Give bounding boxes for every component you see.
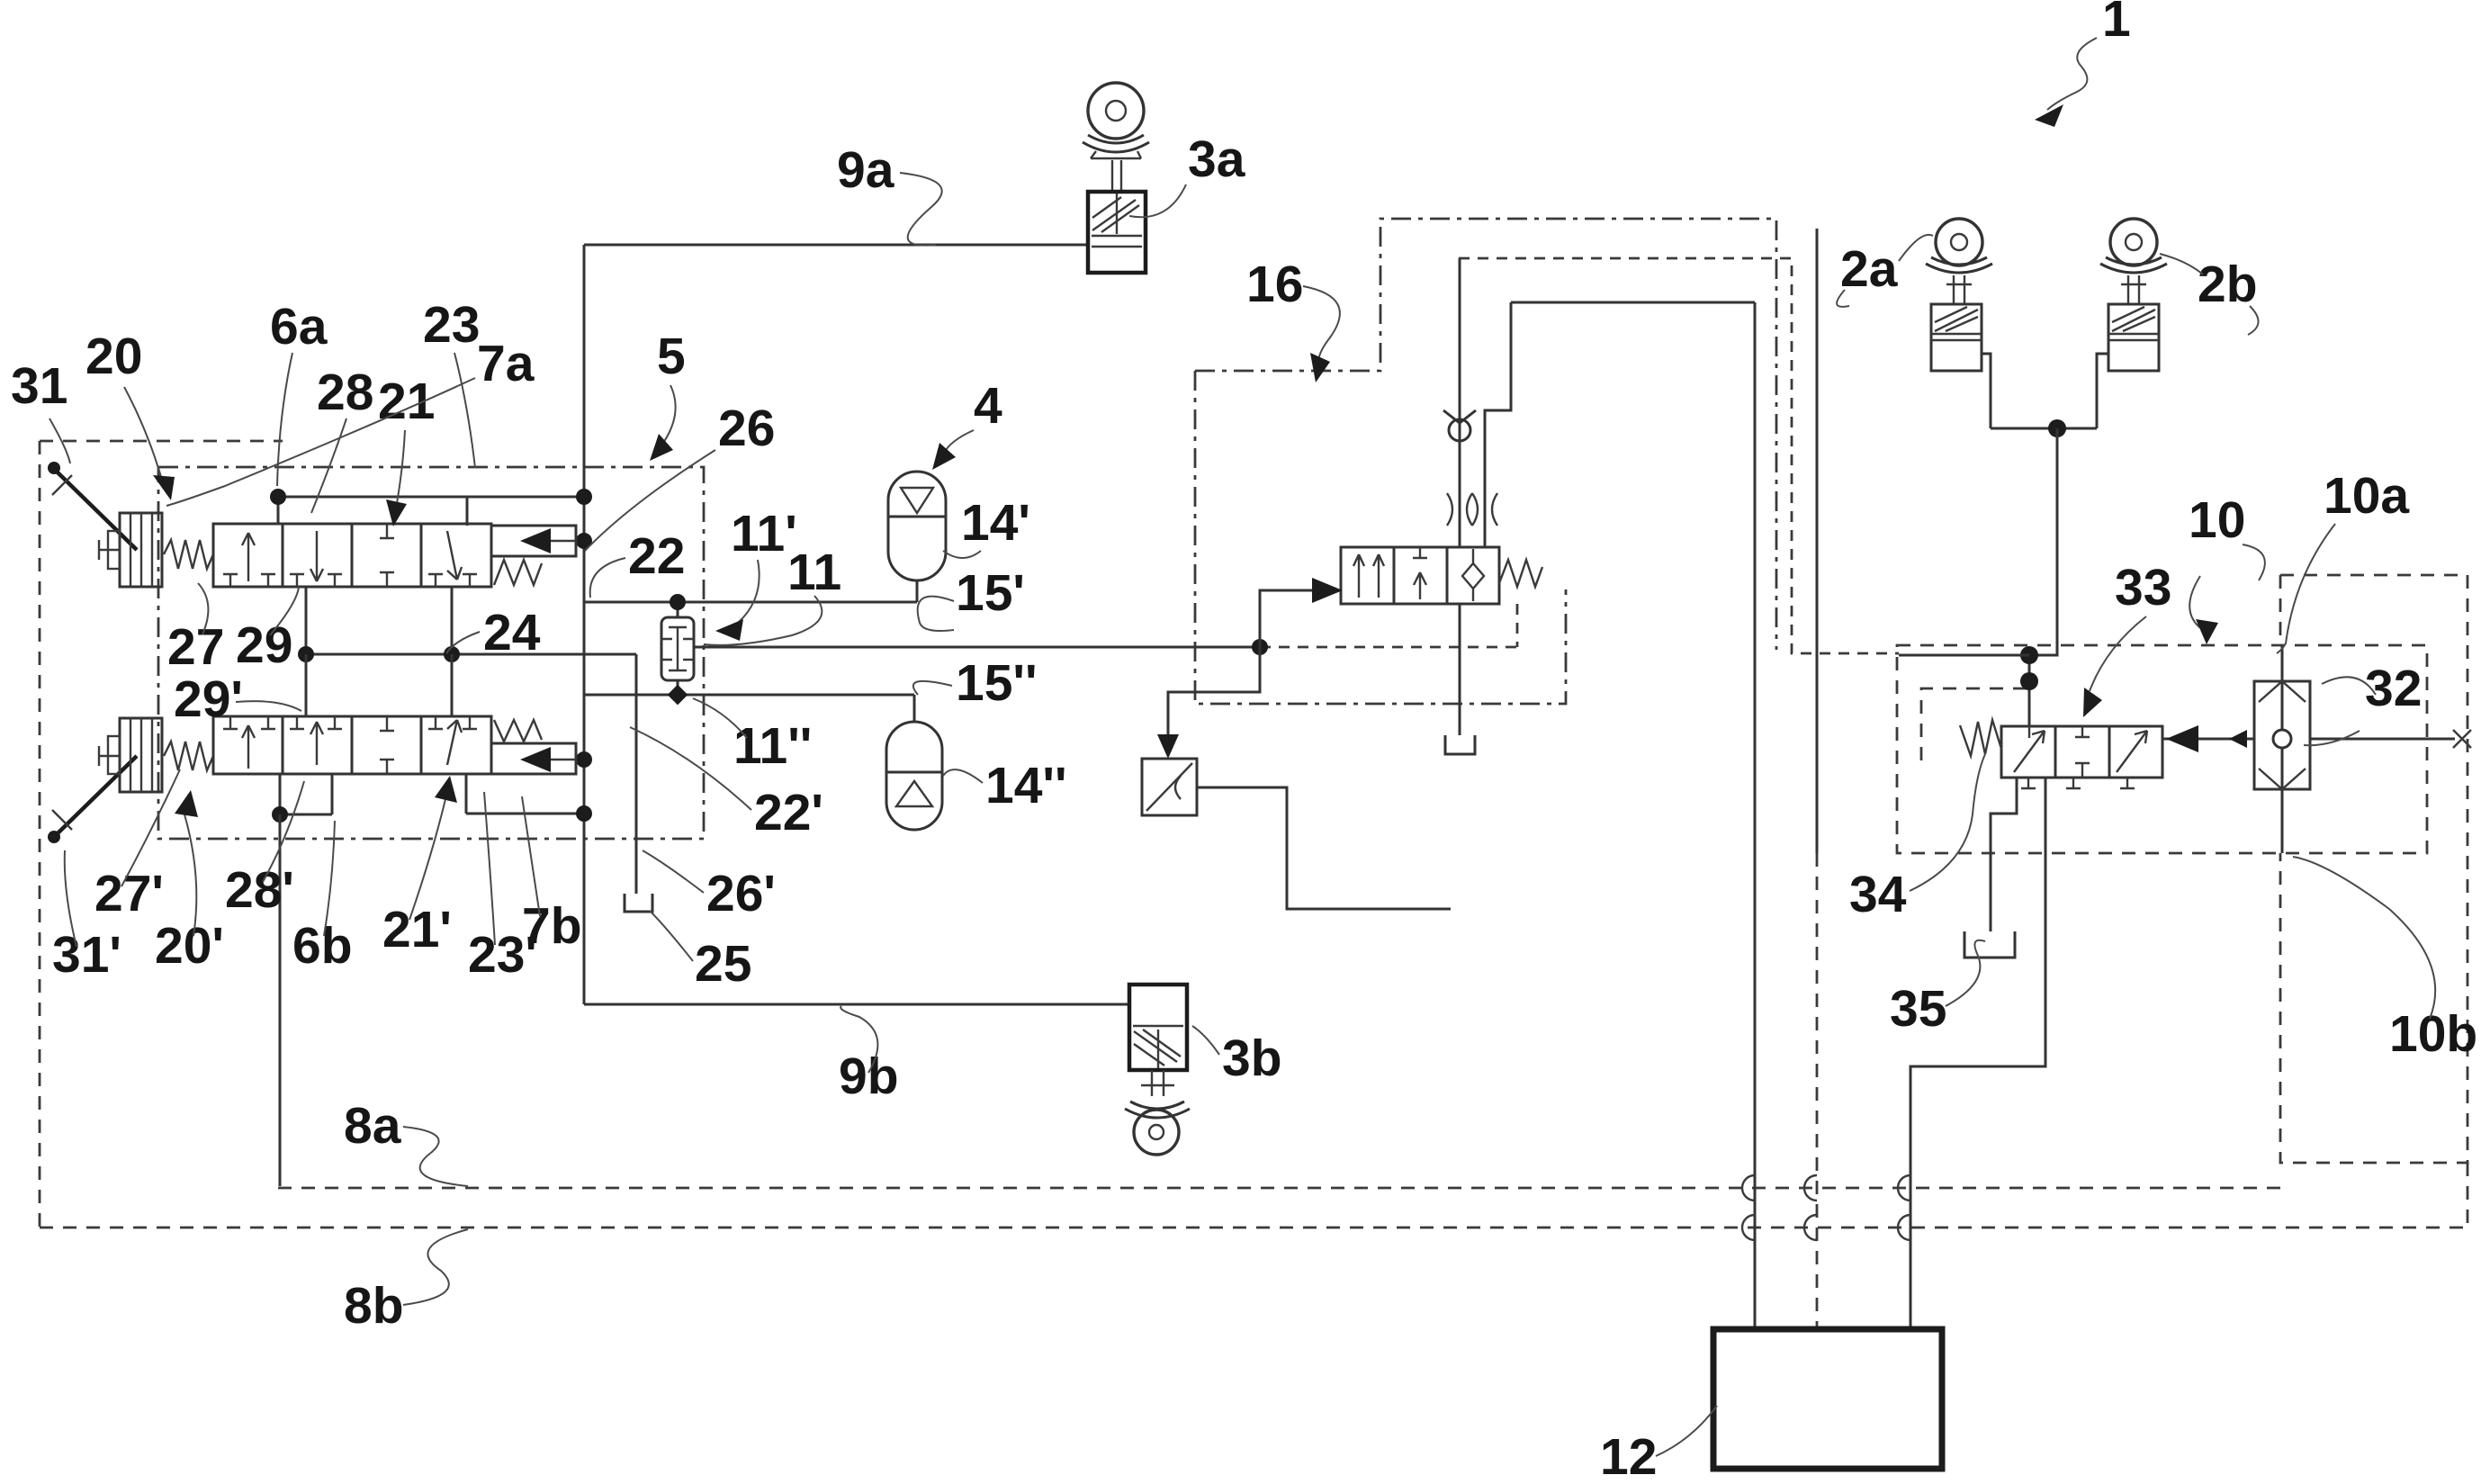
spring 28' [164,742,213,770]
control unit 12 [1713,1329,1942,1469]
svg-text:27: 27 [167,618,224,676]
wire component 11 stems [677,602,679,695]
valve 33 small arrow [2229,730,2247,748]
svg-text:24: 24 [483,604,541,661]
label 7a [166,335,535,506]
wire valve 33 drain to tank 35 [1991,778,2017,931]
node 24 left [298,646,314,662]
wire lower valve pilot arrow to riser [576,759,584,761]
svg-text:14': 14' [961,494,1030,552]
label 34 [1849,754,1985,923]
label 27' [94,769,180,922]
wire check 32 outlet with x terminal [2310,738,2455,741]
lever 31' [48,746,137,843]
label 15' [918,564,1025,631]
svg-text:26': 26' [706,865,776,922]
valve 16 body [1341,547,1499,604]
valve 21 pilot arrow box [491,526,576,556]
svg-text:21: 21 [378,373,435,430]
svg-text:31: 31 [11,357,67,415]
svg-text:20': 20' [155,917,224,975]
svg-text:9a: 9a [837,141,895,199]
accumulator 14'' [886,695,942,830]
svg-text:9b: 9b [839,1048,899,1105]
svg-text:34: 34 [1849,866,1907,923]
svg-text:3a: 3a [1188,130,1246,188]
wire lower valve bottom U link [280,774,332,814]
label 10b [2293,857,2477,1063]
check valve 32 [2254,645,2310,853]
label 1 [2035,0,2131,127]
wire junction down to transducer [1168,647,1260,752]
bellows actuator 27 [108,513,162,587]
node below component 11 [668,685,688,706]
svg-text:21': 21' [382,901,452,958]
label 16 [1246,256,1340,382]
wire brake 2b port [2097,354,2108,428]
valve 21' return spring [494,720,542,742]
arrow into transducer [1157,734,1179,759]
box 10 dashed enclosure [1897,645,2427,853]
label 23' [468,792,537,984]
label 23 [423,296,480,468]
lever 31 [48,462,137,560]
wire 22 accumulator branch upper [584,601,917,604]
svg-text:28': 28' [225,861,294,919]
box 20 dash-dot enclosure [158,467,704,839]
wire 9a top supply line [584,244,1088,247]
valve 21 return spring [494,560,542,585]
component 11 inline damper [661,617,694,680]
node riser pilot upper [576,533,592,549]
wire node 11 feed to valve 16 pilot [694,646,1260,649]
svg-text:33: 33 [2115,559,2171,616]
wire vertical to control unit b [1816,229,1819,853]
label 35 [1890,940,1985,1038]
svg-text:4: 4 [974,377,1002,435]
label 9a [837,141,942,246]
label 11'' [693,698,812,775]
svg-text:29: 29 [236,616,292,674]
box 10 inner pilot dashed sub-box [1921,688,2032,760]
box 16 dash-dot enclosure [1195,219,1776,704]
wire valve 33 output down [1910,778,2045,1329]
svg-text:6b: 6b [292,917,353,975]
svg-text:23: 23 [423,296,480,354]
spring 28 [164,540,213,569]
jog marks at dashed line crossings [1742,1175,1910,1201]
label 11 [704,544,841,645]
label 24 [446,604,541,661]
valve 21' pilot arrow box [491,743,576,774]
svg-text:20: 20 [85,328,142,385]
label 27 [167,583,224,676]
svg-text:28: 28 [317,364,373,421]
svg-text:26: 26 [718,400,775,457]
node brake junction [2048,419,2066,437]
label 14'' [943,757,1067,814]
valve 21 upper body [213,524,491,587]
wire lower valve drop to 8a boundary [279,814,282,1186]
boundary 8a inner dashed line [278,1187,2280,1190]
label 26 [585,400,775,551]
node riser upper [576,489,592,505]
tank 25'' below valve 16 [1445,735,1475,754]
wire lower valve right port to riser [466,774,584,814]
label 20' [155,790,224,975]
svg-text:10b: 10b [2389,1005,2477,1063]
node valve 33 pilot mid [2020,672,2038,690]
pedal unit 3b [1125,985,1190,1155]
pedal unit 3a [1083,83,1149,273]
throttle pair in box 16 [1447,493,1497,526]
valve 33 spring 34 [1960,720,2001,756]
wire valve 16 top port B riser [1485,302,1511,547]
label 11' [715,505,797,641]
node riser lower port [576,805,592,822]
wire valve 33 to check 32 [2162,738,2254,741]
label 26' [643,850,776,922]
svg-text:10a: 10a [2324,467,2410,525]
svg-text:35: 35 [1890,980,1946,1038]
svg-text:2a: 2a [1840,240,1899,298]
node riser lower pilot [576,751,592,768]
label 10a [2277,467,2410,653]
wire supply line to box12 left [1511,301,1755,304]
wire valve 16 spring pilot stub [1516,604,1519,647]
label 3a [1129,130,1246,217]
label 31 [11,357,70,463]
brake 2a [1926,219,1992,371]
wire 11'' accumulator branch lower [584,694,914,697]
label 4 [932,377,1002,470]
svg-text:8b: 8b [344,1277,404,1335]
svg-text:29': 29' [174,670,243,728]
label 32 [2304,660,2422,745]
svg-text:32: 32 [2365,660,2422,717]
accumulator 14' [888,472,946,602]
terminal x mark [2453,730,2471,748]
label 22' [630,727,823,841]
pilot line dashed node 11 to valve 16 [1260,646,1517,649]
valve 16 spring [1499,560,1542,587]
label 21' [382,776,457,958]
wire brake junction bar [1991,427,2097,430]
wire upper valve bottom ports to line 24 [306,587,452,654]
label 20 [85,328,175,500]
wire brake line down to valve 33 [2029,428,2057,655]
wire valve 33 pilot riser [2028,655,2031,726]
label 33 [2083,559,2171,717]
label 21 [378,373,435,526]
svg-text:7b: 7b [522,897,582,955]
wire pilot horizontal inside box 10 [1899,654,2029,657]
wire valve 16 bottom port to tank [1459,604,1461,735]
wire 9b bottom supply line [584,1003,1129,1006]
node pilot junction [1252,639,1268,655]
check valve in box 16 [1443,410,1476,441]
svg-text:7a: 7a [477,335,535,392]
svg-text:8a: 8a [344,1097,402,1155]
tank 35 [1964,931,2015,958]
brake 2b [2100,219,2167,371]
wire lower valve top ports [306,654,452,716]
valve 16 inlet arrow [1312,578,1343,603]
label 2a [1837,235,1933,307]
svg-text:14'': 14'' [985,757,1067,814]
valve 33 body [2001,726,2162,788]
wire upper valve top port link [278,497,584,526]
label 8b [344,1229,468,1335]
label 5 [650,328,686,461]
label 6a [270,298,328,486]
bellows actuator 27' [108,718,162,792]
wire 24 between valves [306,653,636,656]
box 10b right dashed enclosure [2280,575,2468,1163]
tank 25 [625,894,652,912]
label 8a [344,1097,468,1186]
pilot line dashed from valve 16 to valve 33 [1459,258,1899,653]
label 7b [522,796,582,955]
svg-text:3b: 3b [1222,1030,1282,1087]
label 29' [174,670,301,728]
boundary 8b outer dashed box [40,441,2468,1228]
node lower valve bottom [272,806,288,823]
svg-text:15'': 15'' [956,654,1038,712]
label 15'' [913,654,1038,712]
svg-text:2b: 2b [2198,256,2258,313]
valve 21' lower body [213,716,491,774]
valve 33 inlet arrow [2166,725,2198,752]
wire valve 16 top port A riser with check valve [1459,258,1461,547]
label 28 [311,364,373,513]
wire vertical to control unit a [1754,302,1757,1329]
label 28' [225,781,304,919]
wire transducer output [1197,787,1451,909]
label 29 [236,587,299,674]
svg-text:16: 16 [1246,256,1303,313]
wire junction to valve 16 left arrow [1260,590,1316,647]
wire riser from 9a to 9b [583,245,586,1004]
label 6b [292,821,353,975]
label 3b [1192,1026,1282,1087]
label 2b [2160,254,2259,335]
label 12 [1600,1406,1717,1484]
svg-text:10: 10 [2189,491,2245,549]
node valve 33 pilot top [2020,646,2038,664]
svg-text:25: 25 [695,935,751,993]
node above component 11 [670,594,686,610]
wire upper valve pilot arrow to riser [576,540,584,543]
node 24 right [444,646,460,662]
svg-text:12: 12 [1600,1428,1657,1484]
wire drain to tank 25 [635,654,638,894]
svg-text:11: 11 [787,544,841,601]
wire brake 2a port [1982,354,1991,428]
svg-text:5: 5 [657,328,686,385]
svg-text:31': 31' [52,926,121,984]
svg-text:11'': 11'' [733,717,812,775]
svg-text:22: 22 [628,527,685,585]
label 14' [943,494,1030,558]
label 9b [839,1006,899,1105]
label 31' [52,850,121,984]
transducer unit [1142,759,1197,815]
svg-text:1: 1 [2102,0,2131,48]
svg-text:22': 22' [754,784,823,841]
label 22 [590,527,686,598]
label 25 [650,911,751,993]
svg-text:6a: 6a [270,298,328,355]
node upper valve top left [270,489,286,505]
svg-text:15': 15' [956,564,1025,622]
label 10 [2189,491,2265,644]
